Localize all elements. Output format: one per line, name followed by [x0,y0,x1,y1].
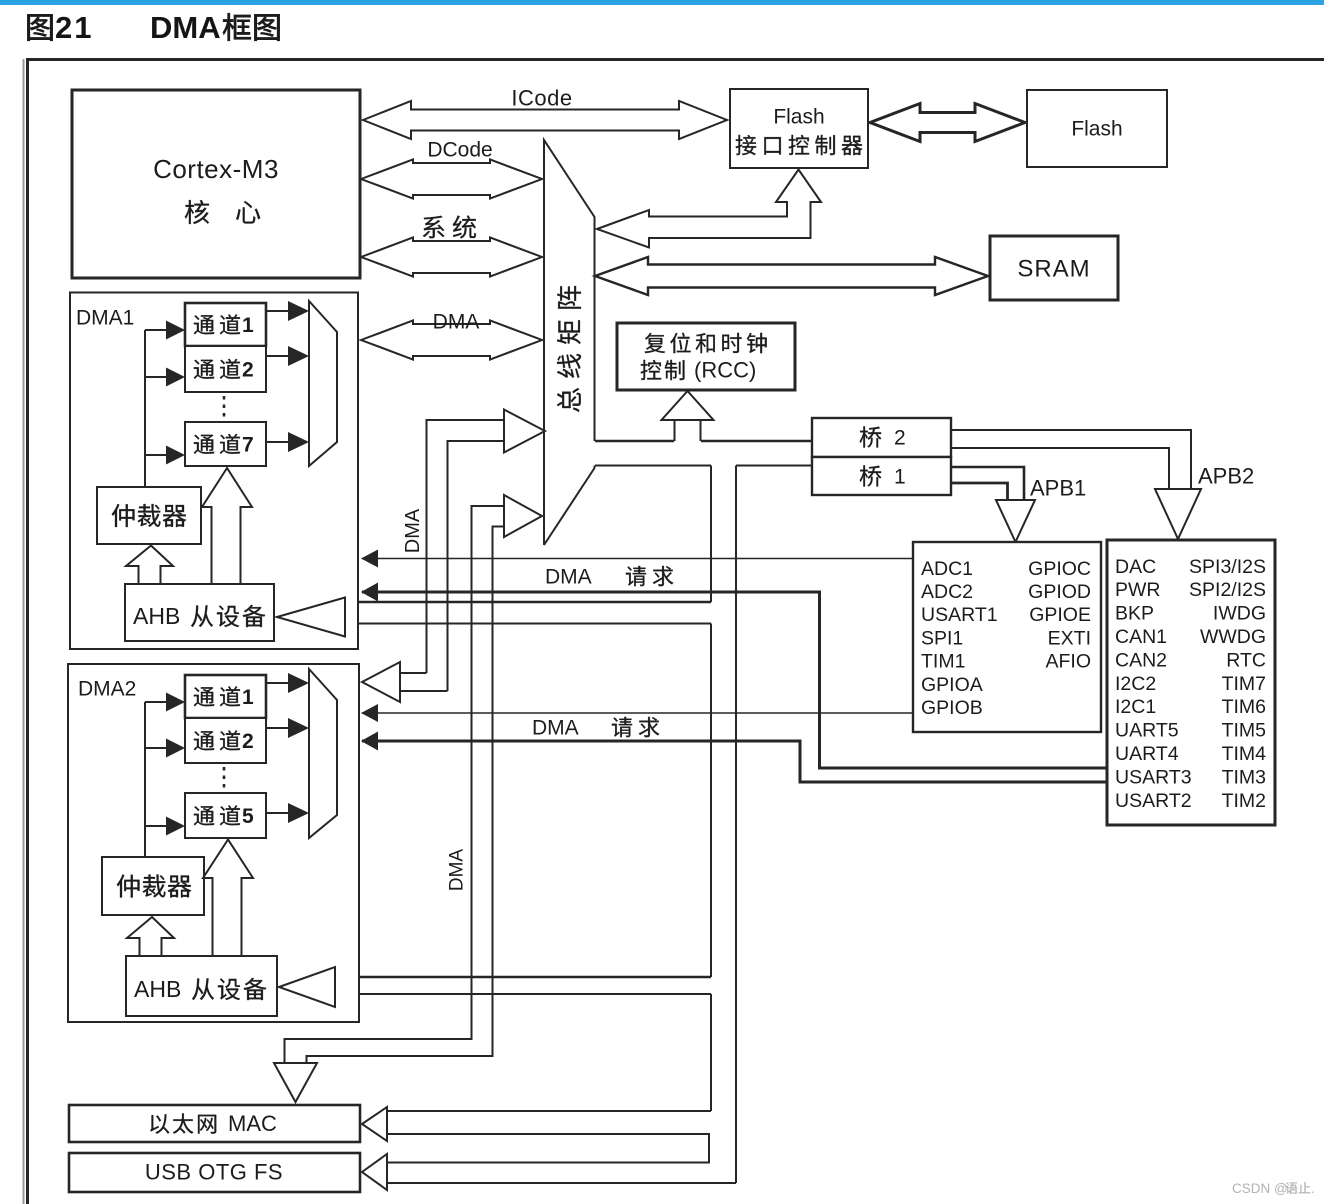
wire+arrows: bus matrix to Flash interface controller [597,170,821,248]
box: DMA1 arbiter 仲裁器 [97,487,201,544]
arrow: DMA2 AHB slave up to channel 5 [203,840,253,957]
wire: Ethernet MAC master port to bus matrix (hollow channel) [285,506,505,1063]
svg-text:(RCC): (RCC) [694,358,756,383]
svg-text:SPI3/I2S: SPI3/I2S [1189,556,1266,578]
svg-text:UART4: UART4 [1115,743,1179,765]
box: DMA2 channel 2 通道2 [185,718,266,763]
svg-text:PWR: PWR [1115,579,1161,601]
svg-text:7: 7 [242,433,254,456]
svg-text:5: 5 [242,805,254,828]
box: DMA1 AHB slave AHB从设备 [125,584,274,641]
box: APB1 peripherals [913,542,1101,732]
wire: bus matrix to bridges (hollow channel bottom line) [595,465,711,467]
arrow: DMA1 master DMA bus [361,321,542,360]
arrow: AHB slave up to arbiter [126,546,173,585]
box: bridge 1 桥1 [812,457,951,495]
wire: vertical AHB slave channel, right line x=736 [735,466,737,1184]
wire: branch to DMA1 AHB slave [343,601,711,603]
arrow: ICode bus (Cortex to Flash IF) [363,101,727,139]
box: DMA2 [68,664,359,1022]
box: DMA2 channel 1 通道1 [185,675,266,718]
svg-text:DMA: DMA [532,716,579,739]
box: APB2 peripherals [1107,540,1275,825]
svg-text:Flash: Flash [1071,117,1122,140]
svg-text:DMA: DMA [545,565,592,588]
wire: branch to DMA2 AHB slave [334,976,711,978]
wire: RCC arrow stem [674,420,676,441]
svg-text:APB2: APB2 [1198,464,1254,489]
svg-text:GPIOB: GPIOB [921,697,983,719]
wire: bus matrix to bridge2/bridge1 (hollow channel top line) [595,440,674,442]
svg-text:2: 2 [894,426,906,449]
box: DMA1 channel 7 通道7 [185,422,266,466]
box: DMA1 [70,293,358,650]
svg-text:CAN2: CAN2 [1115,649,1167,671]
arrow: DCode bus [361,160,542,199]
wire: DMA request line (thin) DMA1 to APB1 [362,558,913,560]
wire: DMA request line (thin) DMA2 to APB1 GPIOB row [362,712,913,714]
svg-text:TIM4: TIM4 [1222,743,1267,765]
arrow: DMA2 AHB slave up to arbiter [127,917,174,956]
arrow: into DMA1 AHB slave [277,598,345,637]
box: DMA2 AHB slave AHB从设备 [126,956,277,1016]
box: Flash interface controller Flash接口控制器 [730,89,868,168]
box: SRAM [990,236,1118,300]
svg-text:RTC: RTC [1226,649,1266,671]
svg-text:TIM7: TIM7 [1222,673,1266,695]
dotted separator DMA2 [223,767,226,790]
svg-text:EXTI: EXTI [1048,627,1091,649]
svg-text:21: 21 [55,10,93,45]
svg-text:ADC1: ADC1 [921,558,973,580]
svg-text:IWDG: IWDG [1213,603,1266,625]
svg-text:1: 1 [894,465,906,488]
box: Ethernet MAC 以太网MAC [69,1105,360,1142]
outer frame [23,59,25,1204]
svg-text:DAC: DAC [1115,556,1156,578]
arrow: Flash IF to Flash (thick) [870,104,1025,142]
svg-text:TIM2: TIM2 [1222,790,1266,812]
svg-text:ICode: ICode [511,86,572,111]
svg-text:DMA: DMA [402,508,424,553]
svg-text:MAC: MAC [228,1111,277,1136]
DMA2 channel feed lines + solid arrows [145,701,167,703]
svg-text:Cortex-M3: Cortex-M3 [153,154,279,184]
arrow: DMA2 master into bus matrix [504,410,545,453]
svg-text:BKP: BKP [1115,603,1154,625]
wire: branch to Ethernet MAC [386,1110,711,1112]
svg-text:USB OTG FS: USB OTG FS [145,1160,283,1185]
svg-text:ADC2: ADC2 [921,581,973,603]
svg-text:1: 1 [242,314,254,337]
arrow: into DMA2 top (from bus matrix) [362,662,400,702]
label: vertical DMA (upper wire) [402,508,424,553]
svg-text:GPIOA: GPIOA [921,674,983,696]
wire: bridge2 to APB2 arrow [951,430,1191,489]
svg-text:TIM3: TIM3 [1222,766,1266,788]
DMA2 channel to funnel lines + solid arrows [266,682,289,684]
svg-text:CAN1: CAN1 [1115,626,1167,648]
svg-text:TIM5: TIM5 [1222,720,1267,742]
box: DMA2 arbiter 仲裁器 [102,857,204,915]
arrow: down into Ethernet MAC top [274,1063,317,1102]
svg-text:2: 2 [242,358,254,381]
svg-text:TIM1: TIM1 [921,651,965,673]
wire: DMA request line (thick) DMA2 to APB2 USART3 row [362,741,1107,782]
svg-text:SRAM: SRAM [1017,255,1090,282]
box: bridge 2 桥2 [812,418,951,457]
svg-text:USART2: USART2 [1115,790,1192,812]
svg-text:AHB: AHB [133,603,180,629]
top blue rule [0,0,1324,5]
arrow: bus matrix to SRAM [595,257,988,295]
arrow: AHB slave up to channel 7 [202,468,252,584]
svg-text:DMA: DMA [150,10,221,45]
svg-text:WWDG: WWDG [1200,626,1266,648]
svg-text:2: 2 [242,730,254,753]
box: DMA1 channel 1 通道1 [185,303,266,346]
DMA1 funnel (output mux) [309,301,337,466]
wire: DMA2 master port to bus matrix (hollow channel) [427,420,505,673]
svg-text:TIM6: TIM6 [1222,696,1266,718]
svg-text:I2C1: I2C1 [1115,696,1156,718]
box: DMA1 channel 2 通道2 [185,346,266,392]
arrow: down into APB2 box [1155,489,1201,539]
arrow: Ethernet MAC master into bus matrix [504,495,542,537]
arrow: system bus 系统 [361,238,542,277]
DMA1 channel feed lines + solid arrows [145,329,167,331]
arrow: into DMA2 AHB slave [279,967,335,1007]
arrow: into USB OTG FS right side [362,1154,387,1190]
arrow: into Ethernet MAC right side [362,1107,387,1141]
title: 图21 DMA框图 [27,10,279,45]
svg-text:SPI1: SPI1 [921,627,963,649]
wire: bridge1 to APB1 arrow [951,467,1024,500]
svg-text:Flash: Flash [773,105,824,128]
svg-text:.: . [1311,1181,1315,1196]
box: DMA2 channel 5 通道5 [185,793,266,838]
DMA1 channel to funnel lines + solid arrows [266,310,289,312]
svg-text:DMA: DMA [447,849,468,892]
arrow: up into RCC [662,391,714,420]
wire: branch to USB OTG FS [386,1182,736,1184]
svg-text:AFIO: AFIO [1045,651,1091,673]
bus matrix 总线矩阵 [544,140,595,545]
label 系统 [423,216,445,239]
wire: DMA request line (thick) DMA1 to APB2 USART/UART rows [362,592,1107,768]
svg-text:SPI2/I2S: SPI2/I2S [1189,579,1266,601]
box: Cortex-M3 core [72,90,360,278]
box: USB OTG FS [69,1153,360,1192]
svg-text:DCode: DCode [427,138,492,161]
dotted separator DMA1 [223,396,226,420]
svg-text:AHB: AHB [134,976,181,1002]
box: Flash [1027,90,1167,167]
label: vertical DMA (lower wire) [447,849,468,892]
svg-text:I2C2: I2C2 [1115,673,1156,695]
svg-text:UART5: UART5 [1115,720,1179,742]
svg-text:DMA1: DMA1 [76,306,134,329]
svg-text:GPIOD: GPIOD [1028,581,1091,603]
svg-text:1: 1 [242,686,254,709]
wire: vertical AHB slave channel, left line x=711 [710,466,712,603]
svg-text:GPIOE: GPIOE [1029,604,1091,626]
svg-text:USART3: USART3 [1115,766,1192,788]
svg-text:GPIOC: GPIOC [1028,558,1091,580]
svg-text:CSDN @: CSDN @ [1232,1181,1288,1196]
svg-text:USART1: USART1 [921,604,998,626]
arrow: down into APB1 box [996,500,1035,542]
svg-text:DMA: DMA [433,310,480,333]
svg-text:DMA2: DMA2 [78,677,136,700]
svg-text:APB1: APB1 [1030,476,1086,501]
DMA2 funnel (output mux) [309,669,337,838]
solid arrows: DMA request into DMA1 [361,550,378,568]
solid arrows: DMA request into DMA2 [361,704,378,722]
box: RCC 复位和时钟控制 [617,323,795,390]
